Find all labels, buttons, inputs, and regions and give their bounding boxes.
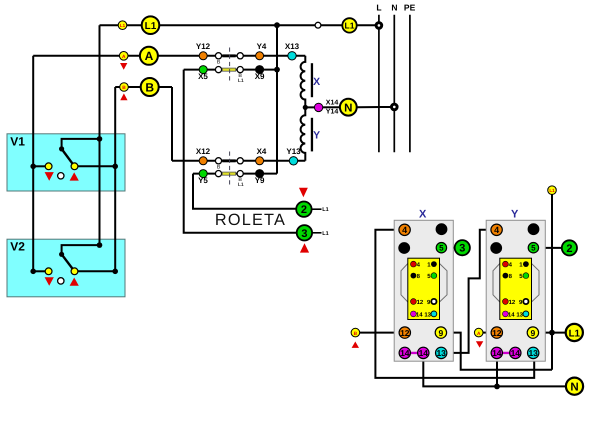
svg-text:B: B [217, 60, 221, 66]
junction X9 / L1 feeder [274, 67, 280, 73]
wire V2 common to B column [75, 270, 116, 272]
svg-text:B: B [217, 165, 221, 171]
terminal small L1 (top right) [548, 186, 557, 195]
svg-text:14: 14 [419, 348, 429, 358]
terminal X13 [288, 52, 296, 60]
svg-text:L1: L1 [120, 23, 126, 28]
svg-text:14: 14 [511, 348, 521, 358]
contact terminal (open) [215, 53, 221, 59]
terminal small A (socket side) [474, 328, 483, 337]
svg-text:Y: Y [511, 209, 519, 221]
svg-text:L1: L1 [145, 21, 157, 32]
relay X pin 12 [411, 299, 417, 305]
switch box V1 [7, 134, 125, 191]
coil Y core [311, 118, 313, 152]
socket X terminal 5 [436, 243, 446, 253]
svg-text:A: A [477, 331, 481, 337]
svg-text:13: 13 [516, 312, 523, 319]
relay X pin 1 [431, 261, 437, 267]
wire B to X12 [171, 87, 173, 161]
arrow down above button 2 [299, 188, 308, 198]
terminal Y9 [256, 170, 264, 178]
socket Y blank terminal top-right [528, 224, 539, 235]
node on N bus (ring) [392, 104, 398, 110]
node circle B [141, 78, 159, 96]
socket Y terminal 13 [528, 347, 539, 358]
terminal small B [120, 83, 129, 92]
relay X pin 9 [431, 299, 436, 304]
svg-text:ROLETA: ROLETA [215, 211, 286, 229]
socket Y wire 14-14 bridge [497, 352, 516, 354]
wire X5 to button 3 [447, 247, 455, 249]
junction L1 row / feeder [274, 22, 280, 28]
svg-text:14: 14 [492, 348, 502, 358]
wire X14 to N net [423, 359, 565, 387]
svg-text:B: B [145, 80, 154, 94]
svg-text:N: N [391, 3, 397, 13]
relay Y body (yellow) [500, 258, 532, 319]
socket Y terminal 12 [491, 327, 502, 338]
junction L1 net right [549, 330, 555, 336]
wire L1 row horizontal [100, 24, 376, 26]
switch lever V2 [62, 254, 75, 271]
contact dot V2 up [71, 268, 78, 275]
relay Y pin 8 [503, 273, 509, 279]
wire Y5 row horizontal [193, 173, 277, 175]
socket X octagonal outline [401, 264, 447, 303]
terminal X5 [199, 66, 207, 74]
svg-text:3: 3 [301, 228, 307, 240]
svg-text:5: 5 [531, 244, 536, 253]
wire Y5 to button 2 [539, 247, 562, 249]
socket Y terminal 14b [510, 347, 521, 358]
svg-text:N: N [570, 381, 578, 393]
svg-text:X: X [419, 209, 427, 221]
svg-text:L1: L1 [238, 182, 244, 188]
svg-text:X12: X12 [196, 147, 211, 156]
relay X pin 13 [431, 311, 437, 317]
relay X pin 14 [411, 311, 417, 317]
svg-text:12: 12 [492, 328, 502, 338]
PE bus wire [409, 15, 411, 152]
svg-text:N: N [344, 102, 352, 114]
node circle L1 (socket side) [566, 324, 583, 341]
svg-text:X: X [313, 76, 320, 88]
socket X terminal 13 [436, 347, 447, 358]
svg-text:L: L [376, 3, 381, 13]
svg-text:B: B [354, 331, 358, 337]
mechanical link (dashed) contact 1 [229, 48, 231, 81]
node V1/L1 junction [97, 136, 103, 142]
wire X12 row horizontal [172, 160, 305, 162]
coil X winding [301, 56, 306, 108]
wire X5 to push-button 3 [184, 70, 297, 233]
svg-text:14: 14 [400, 348, 410, 358]
svg-text:X14: X14 [326, 100, 339, 107]
node circle L1 (right) [342, 18, 356, 32]
L bus wire [378, 15, 380, 152]
socket Y terminal 9 [527, 327, 538, 338]
svg-text:L1: L1 [322, 207, 328, 213]
wire stub button 2 [311, 208, 321, 210]
terminal X12 [199, 157, 207, 165]
relay Y pin 14 [503, 311, 509, 317]
relay X pin 4 [411, 261, 417, 267]
socket Y terminal 14a [491, 347, 502, 358]
wire X5 row horizontal [184, 69, 277, 71]
socket Y terminal 4 [491, 224, 502, 235]
contact terminal (open) [215, 171, 221, 177]
svg-text:V1: V1 [10, 134, 25, 148]
terminal Y12 [199, 52, 207, 60]
wire X9 to L1 net [447, 333, 552, 370]
terminal small L1 [118, 21, 127, 30]
svg-text:B: B [122, 85, 126, 91]
arrow down below A [476, 341, 483, 347]
svg-text:Y12: Y12 [196, 42, 211, 51]
node V2/L1 junction [97, 242, 103, 248]
svg-text:L1: L1 [238, 78, 244, 84]
wire B row horizontal [115, 86, 172, 88]
svg-text:X13: X13 [285, 42, 300, 51]
arrow V2 down [45, 277, 54, 286]
svg-text:V2: V2 [10, 240, 25, 254]
switch box V2 [7, 239, 125, 297]
indicator lamp V1 [58, 173, 64, 179]
socket X terminal 12 [399, 327, 410, 338]
svg-text:PE: PE [404, 3, 416, 13]
svg-text:X9: X9 [255, 72, 265, 81]
terminal Y5 [199, 170, 207, 178]
node circle N (socket side) [566, 378, 583, 395]
wire N circle to N bus [357, 106, 392, 108]
contact terminal (open) [237, 53, 243, 59]
svg-text:12: 12 [417, 299, 424, 306]
wire Y5 to push-button 2 [193, 174, 296, 209]
svg-text:L1: L1 [322, 231, 328, 237]
N bus wire [393, 15, 395, 152]
node V2/B junction [112, 269, 118, 275]
svg-text:13: 13 [436, 348, 446, 358]
svg-text:13: 13 [424, 312, 431, 319]
wire V1 left contact [33, 165, 48, 167]
relay Y pin 4 [503, 261, 509, 267]
node coil centre [303, 105, 308, 110]
wire V2 pivot to L1 column [62, 245, 100, 254]
svg-text:13: 13 [528, 348, 538, 358]
contact terminal (open) [215, 158, 221, 164]
NC contact bar (black) [222, 54, 235, 57]
arrow V1 up [70, 172, 79, 180]
contact terminal (open) [237, 67, 243, 73]
svg-text:2: 2 [566, 243, 572, 255]
svg-text:4: 4 [494, 225, 499, 235]
terminal small A [119, 52, 128, 61]
terminal small B (socket side) [351, 328, 360, 337]
svg-text:Y4: Y4 [257, 42, 267, 51]
svg-text:L1: L1 [549, 188, 555, 193]
node V2 pivot [59, 252, 64, 257]
socket Y octagonal outline [493, 264, 539, 303]
socket X terminal 14a [399, 347, 410, 358]
wire V1 pivot to L1 column [62, 139, 100, 149]
svg-text:A: A [122, 54, 126, 60]
arrow down (A) [120, 63, 127, 70]
terminal Y4 [256, 52, 264, 60]
svg-text:12: 12 [400, 328, 410, 338]
svg-text:X5: X5 [198, 72, 208, 81]
socket Y terminal 5 [528, 243, 538, 253]
NC contact bar (black) [222, 159, 235, 162]
push-button 2 [296, 202, 311, 217]
wire L1 column vertical [99, 25, 101, 245]
arrow up below B [352, 342, 359, 348]
wire Y14 down to N net [496, 359, 498, 387]
terminal X9 [256, 66, 264, 74]
socket X wire 14-14 bridge [405, 352, 424, 354]
relay socket Y body [486, 209, 545, 362]
wire stub button 3 [312, 232, 322, 234]
svg-text:X4: X4 [257, 147, 267, 156]
socket Y blank terminal left [491, 243, 502, 254]
svg-text:Y9: Y9 [255, 176, 265, 185]
arrow up (B) [120, 93, 127, 100]
arrow up below button 3 [300, 243, 309, 252]
node A/V2 junction [30, 269, 36, 275]
relay Y pin 13 [523, 311, 529, 317]
socket X terminal 9 [435, 327, 446, 338]
socket X terminal 4 [399, 224, 410, 235]
contact dot V2 down [45, 268, 52, 275]
wire A to Y12 [483, 332, 491, 334]
arrow V1 down [45, 172, 54, 181]
terminal X14/Y14 [314, 103, 322, 111]
relay Y pin 12 [503, 299, 509, 305]
svg-text:4: 4 [402, 225, 407, 235]
switch lever V1 [62, 149, 75, 166]
wire B column vertical [114, 87, 116, 271]
node circle A [140, 47, 158, 65]
node on L bus (ring) [376, 23, 382, 29]
contact dot V1 up [71, 163, 78, 170]
relay socket X body [394, 209, 453, 362]
node V1 pivot [59, 146, 64, 151]
contact terminal (open) [215, 67, 221, 73]
wire V2 left contact [33, 270, 48, 272]
contact terminal (open) [237, 171, 243, 177]
coil X core [311, 63, 313, 97]
svg-text:Y: Y [313, 130, 320, 142]
svg-text:A: A [145, 49, 154, 63]
relay X pin 5 [431, 273, 437, 279]
wire A row horizontal [33, 55, 305, 57]
node circle N [340, 99, 357, 116]
wire Y4 to X13 (interlock) [447, 230, 491, 353]
mechanical link (dashed) contact 2 [229, 152, 231, 186]
wire X4 to Y13 (interlock) [375, 230, 534, 378]
svg-text:14: 14 [508, 312, 515, 319]
terminal X4 [256, 157, 264, 165]
wire small L1 down the right side [551, 195, 553, 370]
node circle L1 (left) [142, 16, 160, 34]
node A/V1 junction [30, 164, 36, 170]
svg-text:12: 12 [509, 299, 516, 306]
NO contact bar (yellow) [222, 172, 235, 175]
terminal Y13 [289, 157, 297, 165]
arrow V2 up [70, 278, 79, 286]
relay Y pin 1 [523, 261, 529, 267]
contact terminal (open) [237, 158, 243, 164]
svg-text:L1: L1 [345, 21, 355, 31]
svg-text:9: 9 [531, 328, 536, 338]
wire coil centre to N circle [305, 106, 340, 108]
socket X terminal 14b [418, 347, 429, 358]
svg-text:Y14: Y14 [326, 109, 339, 116]
svg-text:3: 3 [459, 243, 465, 255]
svg-text:Y5: Y5 [198, 176, 208, 185]
contact dot V1 down [45, 163, 52, 170]
svg-text:14: 14 [416, 312, 423, 319]
relay X pin 8 [411, 273, 417, 279]
push-button 2 (socket side) [562, 240, 577, 255]
wire A column vertical [32, 56, 34, 271]
svg-text:5: 5 [439, 244, 444, 253]
NO contact bar (yellow) [222, 68, 235, 71]
svg-text:2: 2 [301, 204, 307, 216]
push-button 3 (socket side) [455, 240, 470, 255]
svg-text:L1: L1 [569, 328, 581, 339]
socket X blank terminal top-right [436, 224, 447, 235]
node V1/B junction [112, 164, 118, 170]
relay X body (yellow) [408, 258, 440, 319]
relay Y pin 9 [523, 299, 528, 304]
relay Y pin 5 [523, 273, 529, 279]
socket X blank terminal left [399, 243, 410, 254]
wire L1 feeder vertical x=277 [276, 25, 278, 173]
wire Y9 to node L1 [539, 332, 566, 334]
connector (open circle) on L1 wire [315, 22, 321, 28]
svg-text:Y13: Y13 [286, 147, 301, 156]
svg-text:9: 9 [439, 328, 444, 338]
indicator lamp V2 [58, 278, 64, 284]
coil Y winding [301, 107, 306, 160]
junction N net [494, 384, 500, 390]
wire V1 common to B column [75, 165, 116, 167]
wire B to X12 [360, 332, 400, 334]
push-button 3 [297, 225, 312, 240]
